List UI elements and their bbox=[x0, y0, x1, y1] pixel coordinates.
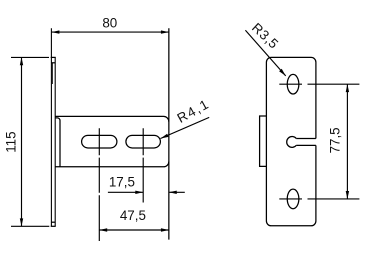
bottom hole centerline bbox=[279, 198, 359, 200]
dim 17,5 line left tail bbox=[108, 191, 143, 193]
top hole centerline bbox=[279, 83, 359, 85]
left view: plate top corner tangent crossbar bbox=[51, 62, 55, 64]
svg-text:R3,5: R3,5 bbox=[249, 20, 281, 51]
left view: mounting plate left edge + 80-dim extension line bbox=[50, 28, 52, 226]
dim 115 bottom extension line bbox=[11, 225, 49, 227]
arrow dim80 right bbox=[161, 30, 169, 33]
svg-text:80: 80 bbox=[102, 15, 117, 30]
svg-text:R4,1: R4,1 bbox=[175, 97, 211, 126]
arrow leader R4,1 bbox=[161, 134, 169, 139]
arrow dim17,5 left (points right) bbox=[135, 191, 143, 194]
right view: bottom slot hole bbox=[287, 189, 299, 209]
arrow dim47,5 right bbox=[161, 228, 169, 231]
slot 2 centerline / extension line bbox=[142, 128, 144, 202]
arrow dim77,5 top bbox=[346, 84, 349, 92]
left view: arm inner bend line bbox=[55, 118, 60, 167]
dim 80 line bbox=[52, 31, 169, 33]
right view: plate outline with keyhole gap on right edge bbox=[266, 57, 316, 225]
arrow dim77,5 bottom bbox=[346, 191, 349, 199]
right view: keyhole circle (open right) bbox=[287, 137, 297, 148]
dim 115 line bbox=[21, 57, 23, 226]
left view: plate top edge bbox=[51, 56, 56, 58]
right view: keyhole slot bottom line bbox=[296, 144, 316, 146]
slot 2 obround bbox=[126, 135, 160, 148]
dim 115 top extension line bbox=[11, 56, 49, 58]
dim 17,5 line right tail bbox=[169, 191, 185, 193]
left view: plate bottom edge bbox=[51, 225, 56, 227]
right view: arm tab seen end-on bbox=[260, 116, 267, 166]
leader line R4,1 bbox=[161, 117, 210, 138]
leader line R3,5 bbox=[245, 30, 285, 76]
slot 1 centerline / extension line bbox=[98, 128, 100, 241]
svg-text:17,5: 17,5 bbox=[109, 174, 135, 189]
arrow dim115 bottom bbox=[20, 218, 23, 226]
left view: arm right edge + extension line for dims bbox=[168, 28, 170, 239]
svg-text:77,5: 77,5 bbox=[328, 127, 343, 153]
arrow dim47,5 left bbox=[99, 228, 107, 231]
right view bbox=[260, 57, 316, 225]
svg-text:115: 115 bbox=[4, 131, 19, 152]
left view: short inner edge below plate top bbox=[52, 63, 54, 84]
arrow dim17,5 right (points left) bbox=[169, 191, 177, 194]
dim 77,5 line bbox=[346, 84, 348, 199]
right view: top slot hole bbox=[287, 74, 299, 94]
dim 47,5 line bbox=[99, 229, 169, 231]
left view: arm top edge with rounded right corner bbox=[55, 116, 169, 121]
slot 1 obround bbox=[82, 135, 117, 148]
left view: plate bottom corner tangent crossbar bbox=[51, 221, 55, 223]
arrow leader R3,5 bbox=[279, 69, 286, 76]
left view: arm bottom edge with rounded right corner bbox=[55, 162, 169, 167]
left view: plate right edge bbox=[54, 57, 56, 226]
arrow dim115 top bbox=[20, 57, 23, 65]
arrow dim80 left bbox=[51, 30, 59, 33]
svg-text:47,5: 47,5 bbox=[120, 208, 146, 223]
right view: keyhole slot top line bbox=[296, 138, 316, 140]
